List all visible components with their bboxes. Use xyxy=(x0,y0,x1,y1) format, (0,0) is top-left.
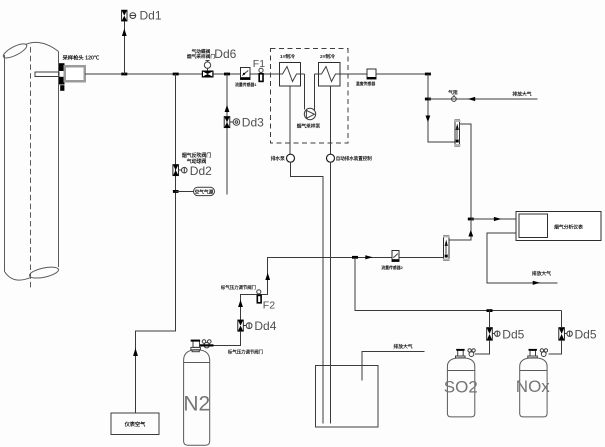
flow sensor 2 xyxy=(381,251,403,270)
svg-text:流量传感器2: 流量传感器2 xyxy=(381,265,403,270)
arrow right cal line xyxy=(365,255,373,259)
rotameter R2 xyxy=(443,236,450,260)
gas restrictor 气阻 xyxy=(447,89,458,101)
valve Dd4 xyxy=(238,320,252,331)
stack / chimney xyxy=(1,41,59,280)
svg-text:湿度传感器: 湿度传感器 xyxy=(356,81,377,86)
svg-text:Dd6: Dd6 xyxy=(214,47,236,61)
cal gas header xyxy=(355,257,562,310)
probe flange upper xyxy=(59,63,65,71)
instrument air box 仪表空气 xyxy=(111,413,159,435)
N2 cylinder xyxy=(183,340,213,446)
arrow up to F2 xyxy=(238,300,243,307)
wire Dd3 drop xyxy=(226,74,228,195)
NOx cylinder xyxy=(516,349,551,417)
wire junction down to R2 xyxy=(449,219,471,240)
node main corner right xyxy=(425,73,431,76)
calibration line from F2 xyxy=(241,257,393,320)
arrow down main drop xyxy=(426,116,431,123)
main sample line (after pump gap) xyxy=(315,73,428,75)
svg-text:流量传感器1: 流量传感器1 xyxy=(235,82,257,87)
analyzer box xyxy=(516,211,601,240)
svg-text:1#制冷: 1#制冷 xyxy=(280,53,295,60)
arrow up Dd1 xyxy=(122,29,127,37)
node main-Dd2 xyxy=(173,73,179,76)
svg-text:Dd5: Dd5 xyxy=(575,327,597,341)
probe heated box xyxy=(65,66,85,81)
svg-text:SO2: SO2 xyxy=(444,378,478,397)
svg-text:Dd1: Dd1 xyxy=(140,9,162,23)
node header tee SO2 xyxy=(487,309,493,312)
sampling probe tube xyxy=(35,72,59,77)
wire Dd5-2 to NOx xyxy=(549,340,562,354)
filter F2 xyxy=(257,290,261,303)
svg-text:Dd5: Dd5 xyxy=(502,327,524,341)
wire R1 out xyxy=(460,124,471,219)
valve Dd1 xyxy=(122,10,136,21)
tank vent pipe xyxy=(362,351,425,380)
wire sensor2 to R2 xyxy=(399,256,443,258)
sample pump xyxy=(297,74,321,129)
wire Dd4 to N2 xyxy=(214,331,241,345)
svg-text:F2: F2 xyxy=(263,300,275,312)
svg-text:Dd2: Dd2 xyxy=(190,164,212,178)
svg-text:自动排水装置控制: 自动排水装置控制 xyxy=(336,155,372,162)
svg-text:烟气分析仪表: 烟气分析仪表 xyxy=(554,224,583,231)
svg-text:排水泵: 排水泵 xyxy=(271,155,285,162)
wire corner down xyxy=(428,74,455,142)
svg-text:Dd4: Dd4 xyxy=(254,319,276,333)
node air-source xyxy=(173,190,179,193)
stack centerline xyxy=(30,47,32,290)
rotameter R1 xyxy=(454,120,460,146)
probe flange lower xyxy=(59,77,65,85)
svg-text:仪表空气: 仪表空气 xyxy=(124,420,147,428)
filter F1 xyxy=(259,68,263,81)
svg-text:烟气反吹阀门: 烟气反吹阀门 xyxy=(182,152,211,159)
probe flange foot xyxy=(60,85,64,91)
svg-text:气动球阀: 气动球阀 xyxy=(186,158,207,165)
wire Dd5-1 to SO2 xyxy=(475,340,490,354)
valve Dd3 xyxy=(224,117,240,128)
wire Dd2 drop xyxy=(136,74,176,413)
wire junction to analyzer xyxy=(471,218,516,220)
node vent tee xyxy=(425,98,431,101)
wire header to Dd5-1 xyxy=(489,311,491,328)
water tank xyxy=(315,365,378,427)
svg-text:标气压力调节阀门: 标气压力调节阀门 xyxy=(220,284,257,291)
valve Dd5 no.1 xyxy=(487,328,500,341)
svg-text:2#制冷: 2#制冷 xyxy=(320,53,335,60)
svg-text:排放大气: 排放大气 xyxy=(532,270,551,277)
wire Dd1 riser xyxy=(123,21,125,74)
cooler 2 xyxy=(319,53,341,86)
svg-text:N2: N2 xyxy=(183,393,210,416)
top vent line xyxy=(428,98,538,100)
drain pump circle 1 xyxy=(271,86,323,424)
flow sensor 1 xyxy=(235,68,257,88)
cooler enclosure dashed box xyxy=(271,49,348,144)
svg-text:气阻: 气阻 xyxy=(447,89,458,96)
node main-Dd1 xyxy=(121,73,127,76)
valve Dd2 xyxy=(173,165,187,176)
arrow up Dd3 xyxy=(225,105,230,112)
svg-text:空气气源: 空气气源 xyxy=(195,189,214,196)
valve Dd5 no.2 xyxy=(559,328,573,341)
svg-text:排放大气: 排放大气 xyxy=(512,90,531,97)
air source stadium box 空气气源 xyxy=(194,187,215,195)
main sample line xyxy=(85,73,305,75)
cooler 1 xyxy=(280,53,301,86)
arrow left on vent xyxy=(468,97,476,101)
valve Dd6 butterfly with actuator xyxy=(202,60,214,77)
svg-text:NOx: NOx xyxy=(516,377,551,396)
arrow up after F2 xyxy=(265,273,270,280)
wire to air source box xyxy=(176,191,194,193)
node cal tee xyxy=(352,256,358,259)
arrow right to analyzer xyxy=(494,217,502,221)
svg-text:F1: F1 xyxy=(253,58,265,70)
svg-text:排放大气: 排放大气 xyxy=(393,343,412,350)
svg-text:标气压力调节阀门: 标气压力调节阀门 xyxy=(227,349,264,356)
svg-text:Dd3: Dd3 xyxy=(242,116,264,130)
node main-Dd3 xyxy=(224,73,230,76)
humidity sensor xyxy=(356,69,377,86)
svg-text:烟气采样泵: 烟气采样泵 xyxy=(297,122,321,129)
analyzer exhaust line xyxy=(487,233,558,283)
drain auto device circle 2 xyxy=(327,86,373,424)
arrow right exhaust xyxy=(533,281,541,285)
arrow up cal gas xyxy=(468,230,473,237)
svg-text:烟气采样阀门: 烟气采样阀门 xyxy=(187,53,215,60)
SO2 cylinder xyxy=(444,349,478,417)
svg-text:采样枪头 120℃: 采样枪头 120℃ xyxy=(63,54,100,62)
arrow up instrument air xyxy=(133,348,138,356)
wire header corner to Dd5-2 xyxy=(561,311,563,328)
node analyzer junction xyxy=(468,218,474,221)
